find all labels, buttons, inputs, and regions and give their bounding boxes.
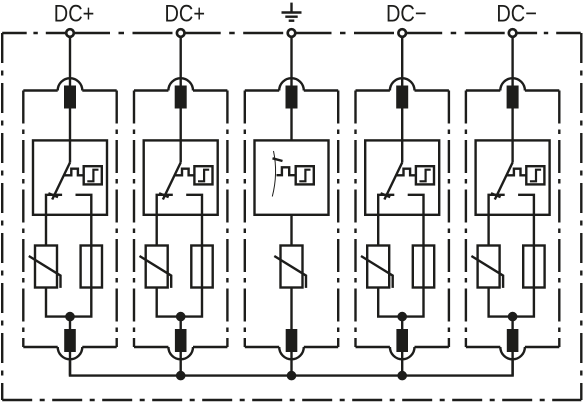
fuse F5 — [523, 246, 544, 288]
left contact bar (module 4) — [378, 195, 394, 246]
junction node (module 1) — [65, 312, 75, 322]
wire varistor to node (module 5) — [489, 288, 513, 317]
step waveform glyph (module 3) — [299, 170, 310, 182]
step waveform glyph (module 2) — [198, 170, 209, 182]
switch blade tick (module 5) — [491, 193, 501, 197]
wire through fuse branch (module 5) — [513, 246, 534, 317]
bottom plug-in contact of module 3 — [286, 329, 298, 352]
SCI switching/disconnection device U4 (box) — [365, 140, 439, 214]
SCI switching/disconnection device U1 (box) — [33, 140, 107, 214]
wire through fuse branch (module 2) — [181, 246, 202, 317]
SCI switching/disconnection device U3 (box) — [255, 140, 329, 214]
protection module 1 outline (dash-dot box with plug-in contact arcs) — [23, 78, 116, 359]
bottom plug-in contact of module 5 — [507, 329, 519, 352]
fuse F4 — [413, 246, 434, 288]
top plug-in contact of module 5 — [507, 86, 519, 109]
svg-text:DC−: DC− — [496, 1, 537, 28]
wire varistor to node (module 4) — [378, 288, 402, 317]
bottom plug-in contact of module 1 — [64, 329, 76, 352]
switch blade tick (module 2) — [159, 193, 169, 197]
switch blade (module 2) — [163, 163, 181, 200]
wire terminal X4 to top contact — [401, 33, 403, 87]
varistor RV1 — [29, 246, 61, 288]
wire box to varistor (module 3) — [290, 215, 292, 246]
varistor RV3 — [274, 246, 306, 288]
wire varistor to node (module 1) — [46, 288, 70, 317]
wire node to bottom contact (module 1) — [69, 317, 71, 376]
junction node (module 5) — [508, 312, 518, 322]
bottom common bus wire — [70, 358, 513, 376]
protection module 5 outline (dash-dot box with plug-in contact arcs) — [466, 78, 559, 359]
terminal X3 — [288, 29, 296, 37]
bottom plug-in contact of module 2 — [175, 329, 187, 352]
switch blade (module 1) — [52, 163, 70, 200]
wire top contact to disconnector box (module 5) — [511, 109, 513, 163]
protection module 4 outline (dash-dot box with plug-in contact arcs) — [356, 78, 449, 359]
bus junction dot (module 3) — [287, 371, 297, 381]
wire top contact to disconnector box (module 1) — [69, 109, 71, 163]
terminal X4 — [398, 29, 406, 37]
trigger pulse line to monitoring element (module 5) — [506, 169, 526, 176]
terminal X1 — [66, 29, 74, 37]
protection module 3 outline (dash-dot box with plug-in contact arcs) — [245, 78, 338, 359]
top plug-in contact of module 3 — [286, 86, 298, 109]
right contact bar (module 1) — [76, 195, 92, 246]
right contact bar (module 2) — [186, 195, 202, 246]
wire node to bottom contact (module 4) — [401, 317, 403, 376]
wire terminal X5 to top contact — [511, 33, 513, 87]
monitoring element square (module 3) — [296, 166, 314, 184]
monitoring element square (module 1) — [84, 166, 102, 184]
trigger pulse line to monitoring element (module 3) — [277, 167, 296, 175]
wire terminal X3 to top contact — [290, 33, 292, 87]
switch blade (module 5) — [495, 163, 513, 200]
top plug-in contact of module 4 — [396, 86, 408, 109]
fuse F2 — [191, 246, 212, 288]
junction node (module 4) — [397, 312, 407, 322]
step waveform glyph (module 4) — [420, 170, 431, 182]
wire varistor to bottom contact (module 3) — [290, 288, 292, 376]
top plug-in contact of module 1 — [64, 86, 76, 109]
wire top contact to disconnector box (module 2) — [179, 109, 181, 163]
wire through fuse branch (module 1) — [70, 246, 91, 317]
wire terminal X1 to top contact — [69, 33, 71, 87]
switch blade tick (module 4) — [381, 193, 391, 197]
step waveform glyph (module 5) — [530, 170, 541, 182]
trigger pulse line to monitoring element (module 2) — [175, 169, 195, 176]
right contact bar (module 5) — [518, 195, 534, 246]
terminal X2 — [177, 29, 185, 37]
switch blade (module 4) — [384, 163, 402, 200]
earth ground symbol — [282, 3, 302, 21]
wire top contact to disconnector box (module 4) — [401, 109, 403, 163]
varistor RV4 — [361, 246, 393, 288]
varistor RV2 — [140, 246, 172, 288]
top plug-in contact of module 2 — [175, 86, 187, 109]
bottom plug-in contact of module 4 — [396, 329, 408, 352]
monitoring element square (module 5) — [526, 166, 544, 184]
disconnect tick (module 3) — [273, 158, 283, 161]
protection module 2 outline (dash-dot box with plug-in contact arcs) — [134, 78, 227, 359]
terminal X5 — [509, 29, 517, 37]
wire node to bottom contact (module 2) — [179, 317, 181, 376]
switch blade tick (module 1) — [48, 193, 58, 197]
wire through fuse branch (module 4) — [402, 246, 423, 317]
trigger pulse line to monitoring element (module 4) — [396, 169, 416, 176]
wire top contact to disconnector box (module 3) — [290, 109, 292, 141]
SCI switching/disconnection device U2 (box) — [144, 140, 218, 214]
varistor RV5 — [471, 246, 503, 288]
bus junction dot (module 2) — [176, 371, 186, 381]
wire terminal X2 to top contact — [179, 33, 181, 87]
left contact bar (module 2) — [157, 195, 173, 246]
trigger pulse line to monitoring element (module 1) — [64, 169, 84, 176]
left contact bar (module 5) — [489, 195, 505, 246]
monitoring element square (module 2) — [194, 166, 212, 184]
svg-text:DC−: DC− — [386, 1, 427, 28]
right contact bar (module 4) — [408, 195, 424, 246]
SCI switching/disconnection device U5 (box) — [476, 140, 550, 214]
fuse F1 — [81, 246, 102, 288]
svg-text:DC+: DC+ — [165, 1, 206, 28]
bus junction dot (module 4) — [397, 371, 407, 381]
disconnection spark-gap symbol (module 3) — [272, 151, 275, 197]
junction node (module 2) — [176, 312, 186, 322]
wire node to bottom contact (module 5) — [511, 317, 513, 376]
svg-text:DC+: DC+ — [54, 1, 95, 28]
step waveform glyph (module 1) — [87, 170, 98, 182]
wire varistor to node (module 2) — [157, 288, 181, 317]
monitoring element square (module 4) — [416, 166, 434, 184]
left contact bar (module 1) — [46, 195, 62, 246]
